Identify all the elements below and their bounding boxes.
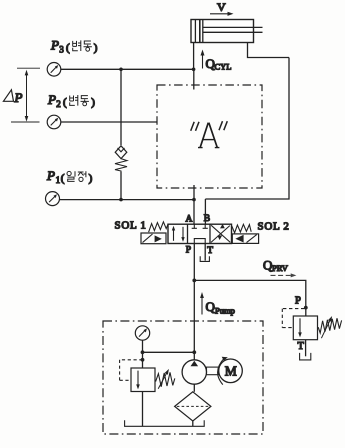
node: P line / QPRV junction — [192, 279, 196, 283]
svg-text:): ) — [89, 173, 93, 185]
wire: gauge drop to relief valve — [142, 340, 144, 368]
svg-text:P: P — [46, 168, 55, 183]
tank (power unit) — [125, 420, 205, 426]
load box A text — [191, 121, 228, 147]
svg-text:P: P — [295, 296, 301, 307]
svg-text:Q: Q — [206, 299, 216, 314]
node: P1/bus junction — [119, 198, 123, 202]
hangul byeon (P3) — [73, 40, 81, 51]
valve left position arrows — [172, 226, 185, 242]
check valve on bus — [115, 146, 127, 159]
check valve spring — [115, 159, 127, 172]
RV spring — [156, 372, 175, 386]
svg-text:P: P — [47, 92, 56, 107]
solenoid SOL1 — [141, 233, 166, 244]
wire: P-port drop to pump — [193, 244, 195, 361]
wire: pump to filter — [193, 384, 195, 392]
svg-text:A: A — [186, 215, 193, 225]
valve left spring — [149, 222, 169, 232]
label P1 (constant) — [46, 168, 93, 185]
node: cylinder line junction — [192, 68, 196, 72]
svg-text:P: P — [14, 90, 23, 105]
svg-text:M: M — [225, 364, 237, 379]
svg-text:PRV: PRV — [272, 263, 289, 273]
node: P1/A-line junction — [192, 198, 196, 202]
svg-text:P: P — [186, 245, 191, 255]
svg-text:P: P — [50, 38, 59, 53]
tank under PRV — [300, 353, 311, 360]
QPRV direction dashed arrow — [271, 273, 297, 277]
wire: cross line to pump line — [143, 351, 195, 353]
Q_CYL flow arrow — [201, 50, 205, 69]
svg-text:1: 1 — [56, 175, 61, 185]
tank under valve — [200, 256, 209, 261]
valve centre position P-T bridge — [194, 239, 205, 244]
hangul jeong (P1) — [78, 171, 86, 181]
svg-text:(: ( — [61, 173, 65, 185]
label Q_PRV — [263, 258, 289, 273]
label Q_Pump — [206, 299, 235, 316]
velocity arrow V — [210, 12, 234, 16]
wire: P1 gauge line — [59, 199, 194, 201]
node: pilot tap junction — [141, 358, 145, 362]
wire: A-line upper stub into box — [193, 69, 195, 89]
relief valve pilot dashed line — [120, 360, 143, 381]
valve centre position blocked A,B — [192, 224, 208, 228]
svg-text:T: T — [207, 246, 213, 256]
node: pump line junction — [192, 350, 196, 354]
gauge P3 — [47, 63, 61, 77]
node: PRV P junction — [304, 306, 308, 310]
filter — [175, 392, 211, 421]
wire: RV drain — [142, 392, 144, 427]
label P2 (variable) — [47, 92, 95, 109]
node: gauge/cross junction — [141, 350, 145, 354]
svg-text:Pump: Pump — [215, 306, 235, 316]
cylinder rod — [203, 27, 263, 32]
svg-text:SOL 2: SOL 2 — [258, 221, 290, 233]
PRV pilot dashed line — [282, 309, 304, 328]
dimension dP arrow line — [25, 70, 29, 122]
label P3 (variable) — [50, 38, 98, 55]
svg-text:(: ( — [63, 97, 67, 109]
PRV adjust arrow — [321, 316, 332, 338]
pump P — [182, 360, 206, 384]
svg-text:CYL: CYL — [215, 62, 232, 72]
cylinder body — [191, 20, 254, 43]
gauge P2 — [47, 115, 61, 129]
hangul byeon (P2) — [70, 95, 78, 106]
wire: bus lower segment — [120, 172, 122, 200]
node: P3/bus junction — [119, 68, 123, 72]
wire: PRV drain — [305, 340, 307, 357]
wire: T-port stub — [204, 244, 206, 261]
PRV spring — [318, 318, 341, 333]
svg-text:B: B — [204, 214, 210, 224]
svg-text:V: V — [217, 0, 226, 14]
valve right position crossed arrows — [211, 224, 230, 243]
wire: P3 gauge line — [61, 68, 194, 70]
dimension dP ticks — [11, 68, 40, 122]
wire: A-line lower stub to valve — [193, 185, 195, 224]
wire: right riser down — [205, 58, 289, 200]
hangul dong (P3) — [84, 41, 92, 51]
label Q_CYL — [206, 56, 232, 72]
wire: P2 gauge line — [61, 121, 157, 123]
svg-text:3: 3 — [59, 44, 64, 54]
svg-text:(: ( — [66, 42, 70, 54]
relief valve RV body — [131, 368, 155, 392]
hangul il (P1) — [67, 171, 75, 181]
svg-text:): ) — [94, 42, 98, 54]
valve V1 body 4/3 — [168, 224, 232, 243]
motor rotation arc — [218, 357, 228, 385]
valve right spring — [232, 224, 251, 233]
wire: B-port drop — [204, 199, 206, 224]
coupling — [207, 367, 219, 375]
load box "A" dash-dot frame — [157, 85, 262, 188]
svg-text:2: 2 — [56, 99, 61, 109]
gauge (power unit) — [135, 326, 149, 340]
svg-text:T: T — [298, 341, 305, 352]
wire: cylinder rod-end port to right riser — [248, 43, 290, 58]
motor M — [219, 359, 243, 383]
wire: filter drain — [192, 421, 194, 426]
wire: bus upper segment — [120, 69, 122, 145]
svg-text:SOL 1: SOL 1 — [115, 219, 147, 231]
gauge P1 — [46, 192, 60, 206]
wire: QPRV branch line — [194, 280, 305, 316]
hangul dong (P2) — [81, 96, 89, 106]
label dP — [3, 90, 22, 105]
solenoid SOL2 — [232, 234, 258, 244]
Q_Pump flow arrow — [200, 292, 204, 315]
power unit dash-dot enclosure — [103, 321, 263, 434]
svg-text:): ) — [91, 97, 95, 109]
wire: cylinder cap-end port down — [193, 43, 195, 70]
relief valve PRV body — [293, 316, 317, 340]
RV adjust arrow — [158, 369, 169, 389]
